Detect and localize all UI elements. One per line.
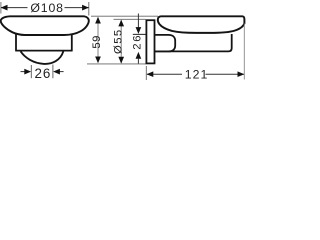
arrow right of Ø108 [82,5,89,11]
extension lines of 26 (front) [30,65,32,78]
arrow right of 121 [238,71,245,77]
arrow up of Ø55 [118,20,124,27]
extension line right of Ø108 [88,2,90,16]
dimension line Ø55 [120,20,122,63]
wall rosette side view [146,20,154,63]
dimension line 59 [97,18,99,63]
holder ring bottom side view [155,34,232,51]
extension line left of 121 (wall plane) [145,66,147,80]
arrow down of Ø55 [118,57,124,64]
holder plate front view [15,34,72,50]
arrow up of 59 [95,17,101,24]
arrow up of 26 (side) [136,52,142,59]
svg-text:59: 59 [91,35,103,49]
stem dome front view [21,51,64,64]
extension line left of Ø108 [0,2,2,14]
arrow down of 59 [95,57,101,64]
dimension line 121 [147,73,182,75]
arrow pointing left at 26 [53,69,60,75]
dimension line 26 (front) [21,71,26,73]
arrow left of 121 [147,71,154,77]
svg-text:121: 121 [185,67,209,81]
arrow left of Ø108 [1,5,8,11]
svg-text:Ø108: Ø108 [30,1,63,15]
lower tail of 26 (side) [137,59,139,64]
dish outline front view [1,16,89,35]
extension line arm top [133,33,146,35]
arrow pointing right at 26 [24,69,31,75]
extension line bottom (rosette bottom level) [87,63,146,65]
svg-text:Ø55: Ø55 [113,28,125,54]
dimension line Ø108 [1,7,28,9]
arrow down of 26 (side) [136,27,142,34]
bracket arm side view [155,35,175,52]
svg-text:26: 26 [132,34,144,50]
extension line rosette top [114,18,146,20]
dish outline side view [158,16,245,33]
svg-text:26: 26 [35,66,52,81]
extension line right of 121 (dish tip) [243,24,245,80]
dimension 26 (side): upper tail [137,14,139,28]
extension line top (dish top level) [91,15,158,17]
